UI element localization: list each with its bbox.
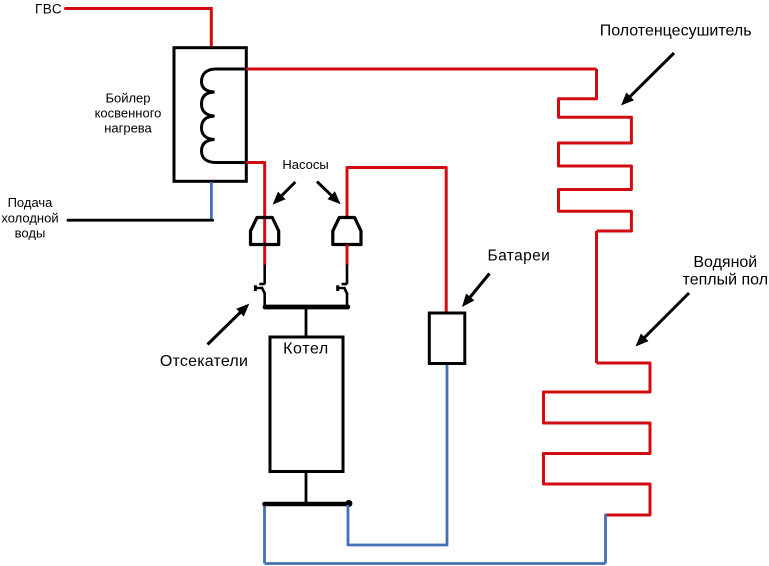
pump P1 xyxy=(251,218,279,245)
wire cold water supply (black) xyxy=(68,219,213,222)
boiler tank box xyxy=(174,48,246,182)
towel warmer serpentine (red) xyxy=(559,69,632,231)
svg-text:Бойлер: Бойлер xyxy=(105,90,150,105)
wire valve1 to bar1 (black) xyxy=(263,293,266,306)
junction dot at bar2 right end xyxy=(345,500,352,507)
arrow to pump2 xyxy=(317,182,341,205)
wire bottom blue return xyxy=(265,562,606,565)
svg-text:Насосы: Насосы xyxy=(282,157,328,172)
svg-text:воды: воды xyxy=(15,226,46,241)
wire cold water blue stub at boiler bottom xyxy=(210,182,213,220)
pump P2 xyxy=(333,218,361,245)
arrow to battery xyxy=(462,274,490,308)
wire valve2 to bar1 (black) xyxy=(346,293,349,306)
svg-text:нагрева: нагрева xyxy=(104,121,152,136)
svg-text:Котел: Котел xyxy=(283,341,329,358)
wire boiler to pump1 (red) xyxy=(246,163,265,245)
heated floor serpentine (red) xyxy=(544,363,651,515)
svg-text:косвенного: косвенного xyxy=(95,106,162,121)
arrow to towel warmer xyxy=(621,53,674,106)
svg-text:теплый пол: теплый пол xyxy=(683,272,768,289)
wire pump2 outlet (red) xyxy=(346,245,349,266)
wire Котел to bar2 xyxy=(305,472,308,503)
wire pump1 to valve1 (black) xyxy=(263,265,266,285)
wire battery blue return xyxy=(348,364,447,545)
svg-text:Полотенцесушитель: Полотенцесушитель xyxy=(600,23,752,40)
manifold bar2 (thick) xyxy=(265,502,348,507)
wire bar1 to boiler Котел xyxy=(305,309,308,337)
valve V1 xyxy=(255,284,265,294)
arrow to valves xyxy=(208,304,250,345)
arrow to heated floor xyxy=(636,293,690,347)
wire pump2 riser (red) xyxy=(347,168,446,313)
svg-text:ГВС: ГВС xyxy=(35,2,62,17)
manifold bar1 (thick) xyxy=(265,305,348,310)
Котел box xyxy=(270,337,343,472)
svg-text:Батареи: Батареи xyxy=(488,248,551,265)
svg-text:Водяной: Водяной xyxy=(693,254,757,271)
arrow to pump1 xyxy=(273,182,296,205)
svg-text:холодной: холодной xyxy=(1,210,58,225)
battery (radiator) box xyxy=(429,313,465,364)
svg-text:Отсекатели: Отсекатели xyxy=(160,353,248,370)
heat exchanger coil inside boiler xyxy=(202,69,245,163)
wire blue return up to bar2 left xyxy=(263,505,266,564)
wire towel warmer to floor loop (red) xyxy=(595,231,598,363)
svg-text:Подача: Подача xyxy=(8,195,54,210)
wire boiler coil to towel warmer (red) xyxy=(246,68,596,71)
wire pump1 outlet (red) xyxy=(263,245,266,266)
valve V2 xyxy=(338,284,348,294)
wire floor loop blue return riser xyxy=(604,514,607,564)
wire pump2 to valve2 (black) xyxy=(346,265,349,285)
wire ГВС hot water supply (red) xyxy=(66,9,212,47)
